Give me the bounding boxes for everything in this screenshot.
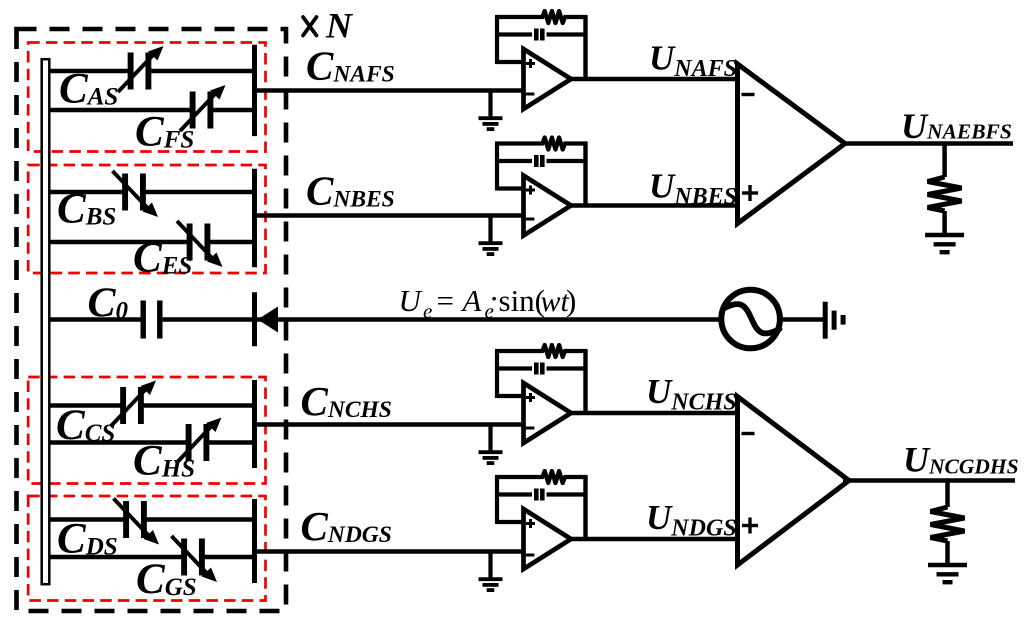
ground at op-amp U3 input — [479, 425, 503, 464]
variable capacitor CES plates — [190, 224, 208, 261]
collector bar pair1 — [252, 45, 257, 136]
op-amp U1 triangle — [524, 49, 572, 109]
wire row CDS left — [51, 517, 125, 522]
wire row CHS left — [51, 440, 187, 445]
variable capacitor CFS plates — [193, 92, 211, 129]
op-amp U2 triangle — [524, 176, 572, 236]
excitation arrowhead into C0 bar — [258, 307, 279, 333]
wire C_NCHS from collector bar to op-amp U3 — [255, 422, 524, 427]
wire row CHS right — [209, 440, 255, 445]
difference amplifier A2 triangle — [738, 397, 850, 566]
svg-text:=: = — [437, 283, 454, 318]
wire row CBS right — [145, 190, 255, 195]
ground below load resistor R2 — [928, 565, 967, 582]
svg-text:): ) — [566, 283, 576, 318]
sensor pair dashed box 1 — [28, 43, 265, 152]
variable capacitor CDS arrow — [114, 499, 160, 545]
difference amplifier A2 plus marker — [742, 518, 758, 534]
feedback resistor Rf2 — [543, 138, 565, 150]
feedback resistor Rf1 — [543, 11, 565, 23]
op-amp U3 minus input marker — [526, 427, 535, 430]
wire row CES right — [210, 240, 255, 245]
common electrode plate — [42, 59, 50, 584]
collector bar pair3 — [252, 380, 257, 468]
op-amp U4 plus input marker — [526, 519, 535, 528]
feedback capacitor Cf4 — [536, 489, 542, 501]
wire row CGS right — [204, 555, 255, 560]
feedback network wires U4 — [495, 477, 588, 539]
sensor array outer dashed boundary — [17, 29, 287, 611]
variable capacitor CAS arrow — [118, 46, 164, 92]
collector bar C0 — [252, 292, 257, 346]
op-amp U1 minus input marker — [526, 93, 535, 96]
variable capacitor CBS arrow — [113, 171, 159, 217]
load resistor R1 — [928, 144, 962, 235]
variable capacitor CDS plates — [126, 501, 144, 538]
difference amplifier A1 plus marker — [742, 185, 758, 201]
wire row CGS left — [51, 555, 183, 560]
capacitor C0 plates — [143, 301, 160, 339]
op-amp U4 triangle — [524, 509, 572, 569]
difference amplifier A2 minus marker — [742, 432, 755, 435]
feedback capacitor Cf1 — [536, 29, 542, 41]
wire row CBS left — [51, 190, 124, 195]
sideways ground at AC source — [825, 302, 843, 339]
variable capacitor CCS arrow — [111, 381, 157, 427]
feedback network wires U1 — [495, 17, 588, 79]
sensor pair dashed box 2 — [28, 165, 265, 273]
wire AC source to ground — [780, 317, 823, 322]
feedback resistor Rf4 — [543, 471, 565, 483]
feedback resistor Rf3 — [543, 345, 565, 357]
wire C_NDGS from collector bar to op-amp U4 — [255, 549, 524, 554]
wire row CFS left — [51, 108, 191, 113]
op-amp U2 plus input marker — [526, 186, 535, 195]
load resistor R2 — [931, 481, 965, 565]
wire C_NBES from collector bar to op-amp U2 — [255, 213, 524, 218]
wire op-amp U1 output — [569, 77, 738, 82]
difference amplifier A1 triangle — [738, 64, 846, 224]
feedback network wires U3 — [495, 351, 588, 413]
svg-text:U: U — [399, 283, 424, 318]
variable capacitor CHS plates — [189, 424, 207, 461]
wire C_NAFS from collector bar to op-amp U1 — [255, 88, 524, 93]
wire row CES left — [51, 240, 188, 245]
feedback capacitor Cf3 — [536, 363, 542, 375]
op-amp U2 minus input marker — [526, 218, 535, 221]
variable capacitor CES arrow — [177, 221, 223, 267]
ground at op-amp U4 input — [479, 552, 503, 591]
svg-text:e: e — [423, 299, 432, 323]
variable capacitor CGS arrow — [172, 536, 218, 582]
variable capacitor CGS plates — [184, 539, 202, 576]
sensor pair dashed box 4 — [28, 496, 265, 601]
AC source sine symbol — [724, 304, 780, 333]
op-amp U3 triangle — [524, 383, 572, 443]
collector bar pair2 — [252, 169, 257, 268]
wire output U net 2 — [843, 478, 1015, 483]
svg-text:A: A — [461, 283, 483, 318]
op-amp U3 plus input marker — [526, 393, 535, 402]
wire row CDS right — [146, 517, 255, 522]
label xN multiplier — [303, 6, 354, 46]
wire row CCS right — [143, 403, 255, 408]
variable capacitor CHS arrow — [176, 418, 222, 464]
wire row CFS right — [213, 108, 255, 113]
wire op-amp U2 output — [569, 203, 738, 208]
wire row CAS left — [51, 69, 129, 74]
capacitor C0 wire left — [51, 317, 141, 322]
wire row CAS right — [151, 69, 255, 74]
excitation wire from source to C0 — [163, 317, 722, 322]
variable capacitor CBS plates — [125, 174, 143, 211]
collector bar pair4 — [252, 499, 257, 583]
ground below load resistor R1 — [925, 235, 964, 252]
wire op-amp U4 output — [569, 537, 738, 542]
wire output U net 1 — [843, 141, 1013, 146]
label excitation equation — [399, 281, 577, 323]
svg-text:sin(: sin( — [499, 283, 546, 318]
op-amp U4 minus input marker — [526, 554, 535, 557]
wire op-amp U3 output — [569, 411, 738, 416]
feedback capacitor Cf2 — [536, 155, 542, 167]
variable capacitor CCS plates — [123, 387, 141, 424]
difference amplifier A1 minus marker — [742, 93, 755, 96]
ground at op-amp U1 input — [479, 91, 503, 130]
wire row CCS left — [51, 403, 122, 408]
variable capacitor CFS arrow — [180, 85, 226, 131]
feedback network wires U2 — [495, 144, 588, 206]
ground at op-amp U2 input — [479, 216, 503, 255]
variable capacitor CAS plates — [131, 53, 149, 90]
AC source circle — [721, 290, 780, 349]
op-amp U1 plus input marker — [526, 59, 535, 68]
sensor pair dashed box 3 — [28, 377, 265, 484]
svg-text:N: N — [325, 6, 354, 46]
